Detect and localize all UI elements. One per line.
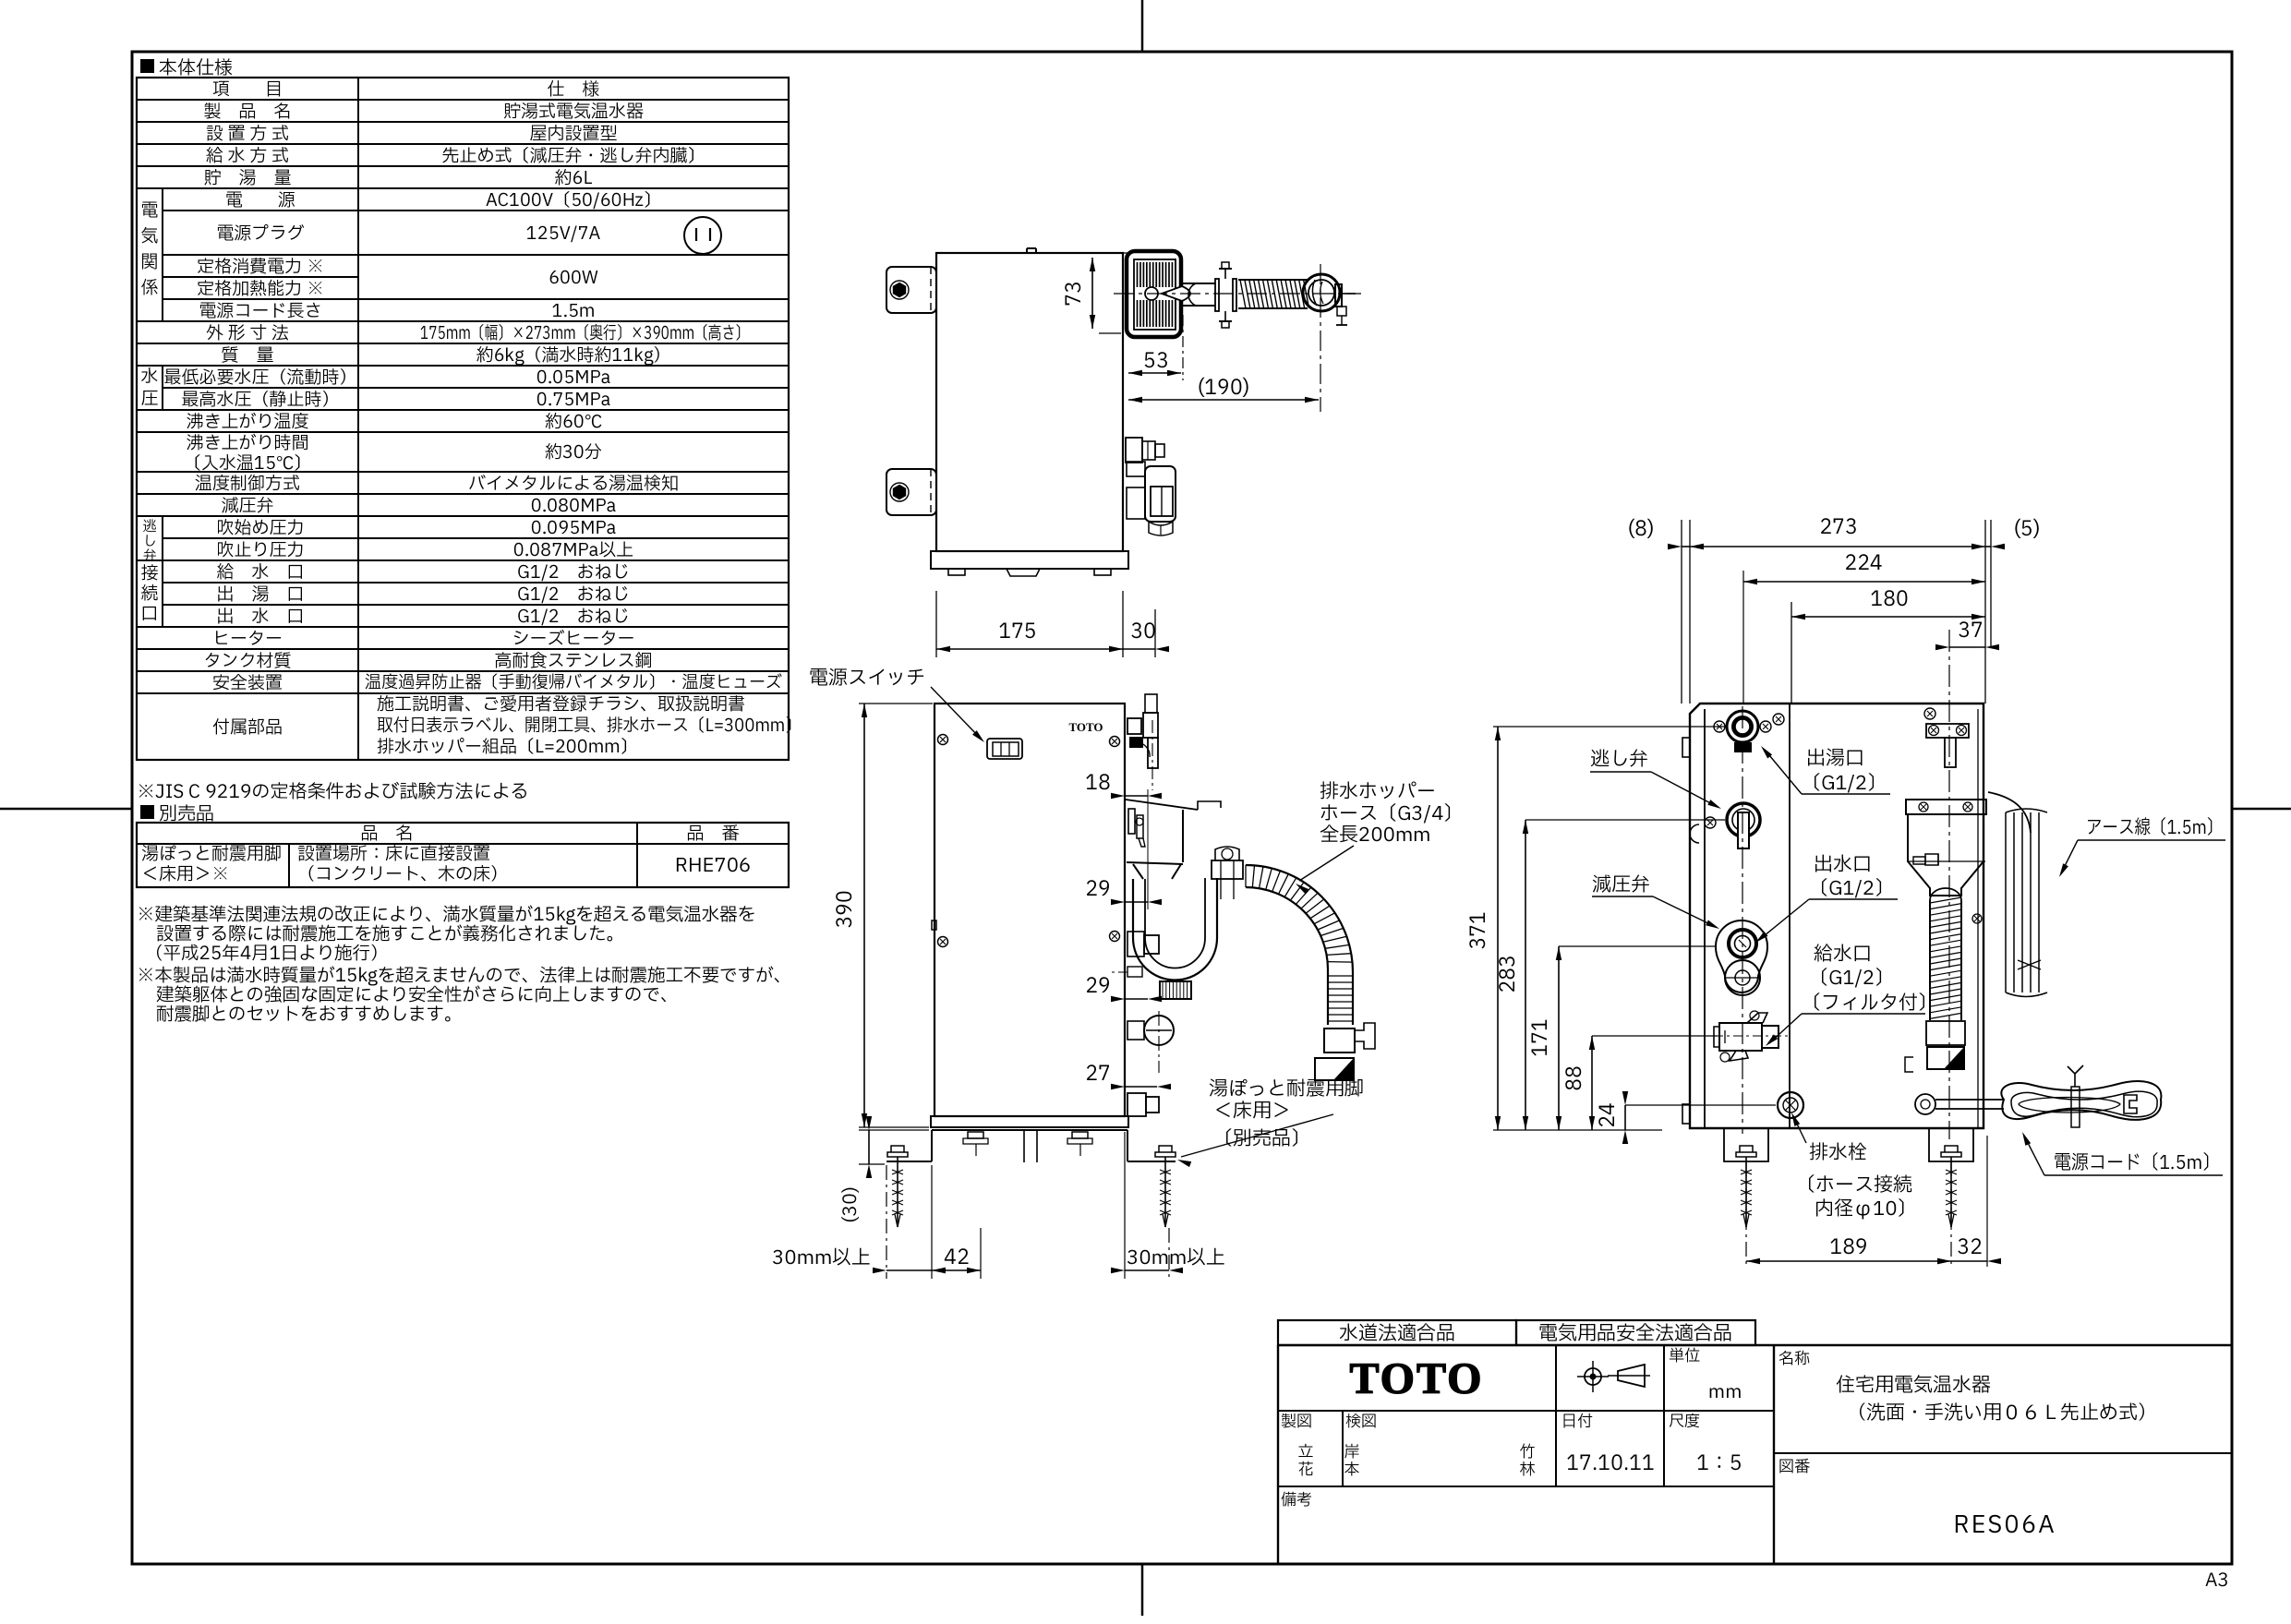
rear view: hose bottom clamp + cap bbox=[1905, 1057, 1913, 1072]
svg-text:42: 42 bbox=[944, 1243, 970, 1273]
svg-text:1：5: 1：5 bbox=[1696, 1449, 1742, 1479]
right center tick bbox=[2232, 808, 2291, 811]
svg-text:〔別売品〕: 〔別売品〕 bbox=[1213, 1125, 1310, 1154]
spec table grid bbox=[137, 78, 789, 760]
svg-text:175mm〔幅〕×273mm〔奥行〕×390mm〔高さ〕: 175mm〔幅〕×273mm〔奥行〕×390mm〔高さ〕 bbox=[420, 321, 749, 347]
dimension 390 bbox=[859, 703, 933, 704]
svg-text:30: 30 bbox=[1130, 617, 1156, 647]
rear view: left dim extension lines bbox=[1493, 726, 1725, 728]
front view: U trap outer bbox=[1133, 878, 1217, 980]
top view: hose clamp plates bbox=[1215, 279, 1219, 311]
svg-text:住宅用電気温水器: 住宅用電気温水器 bbox=[1836, 1372, 1991, 1401]
dimension (190) bbox=[1128, 399, 1319, 401]
rear view: drain plug 排水栓 bbox=[1778, 1092, 1803, 1118]
top view: main body outline bbox=[936, 253, 1123, 551]
dimension 175 / 30 (top) bbox=[935, 591, 937, 657]
top view: bracket bolt lower bbox=[890, 483, 909, 501]
svg-text:耐震脚とのセットをおすすめします。: 耐震脚とのセットをおすすめします。 bbox=[156, 1001, 463, 1029]
rear view: earth wire bbox=[1988, 792, 2031, 833]
rear view: center dashed line bbox=[1742, 706, 1743, 1134]
front view: knurled nut bbox=[1160, 981, 1191, 999]
front view: relief valve lever bbox=[1128, 809, 1135, 834]
svg-text:気: 気 bbox=[140, 224, 158, 250]
front view: power switch bbox=[987, 739, 1022, 759]
top view: base plate bbox=[931, 551, 1128, 569]
svg-text:本: 本 bbox=[1344, 1459, 1360, 1482]
top view: wall bracket upper bbox=[886, 267, 936, 313]
svg-text:アース線〔1.5m〕: アース線〔1.5m〕 bbox=[2086, 814, 2223, 843]
top view: wall bracket lower bbox=[886, 469, 936, 515]
rear view: mounted drain hose assembly top plate bbox=[1906, 800, 1986, 814]
svg-text:電源プラグ: 電源プラグ bbox=[216, 222, 304, 247]
svg-text:390: 390 bbox=[830, 890, 861, 929]
svg-text:AC100V〔50/60Hz〕: AC100V〔50/60Hz〕 bbox=[486, 188, 661, 214]
top view: bracket bolt upper bbox=[890, 281, 909, 299]
svg-text:273: 273 bbox=[1819, 512, 1858, 543]
svg-text:17.10.11: 17.10.11 bbox=[1566, 1449, 1655, 1479]
svg-text:排水栓: 排水栓 bbox=[1809, 1139, 1867, 1168]
top view: heater grille outer bbox=[1127, 251, 1181, 337]
svg-text:約60℃: 約60℃ bbox=[545, 410, 602, 436]
rear view: back plate lines bbox=[1681, 520, 1682, 704]
svg-text:（コンクリート、木の床）: （コンクリート、木の床） bbox=[297, 862, 508, 888]
svg-text:30mm以上: 30mm以上 bbox=[772, 1245, 871, 1273]
anchor screw bbox=[887, 1152, 908, 1157]
svg-text:付属部品: 付属部品 bbox=[212, 716, 283, 741]
front view: center rear feet bbox=[1023, 1130, 1025, 1162]
dimension 180 bbox=[1791, 602, 1792, 704]
rear view: feet bbox=[1724, 1128, 1768, 1161]
svg-text:224: 224 bbox=[1844, 548, 1883, 579]
svg-text:30mm以上: 30mm以上 bbox=[1127, 1245, 1225, 1273]
svg-text:29: 29 bbox=[1085, 971, 1111, 1002]
rear view: hot water outlet 出湯口 bbox=[1727, 711, 1758, 742]
svg-text:mm: mm bbox=[1708, 1378, 1742, 1406]
svg-text:180: 180 bbox=[1870, 584, 1909, 615]
svg-text:371: 371 bbox=[1464, 911, 1494, 950]
dimension 224 bbox=[1742, 571, 1744, 704]
svg-text:全長200mm: 全長200mm bbox=[1320, 822, 1430, 850]
svg-text:最高水圧（静止時）: 最高水圧（静止時） bbox=[181, 388, 339, 414]
top view: right clamp bbox=[1335, 284, 1342, 307]
svg-text:24: 24 bbox=[1593, 1102, 1623, 1128]
front view: body screws bbox=[938, 735, 948, 745]
top center tick bbox=[1141, 0, 1144, 52]
front view: bottom drain fitting bbox=[1127, 1093, 1146, 1116]
svg-text:尺度: 尺度 bbox=[1669, 1411, 1700, 1434]
svg-text:係: 係 bbox=[140, 276, 158, 302]
front view: hose end cap (dark corner) bbox=[1315, 1058, 1354, 1080]
front view: hopper neck bbox=[1133, 864, 1181, 879]
svg-text:電: 電 bbox=[140, 198, 158, 224]
front view: left edge tab bbox=[932, 920, 936, 930]
svg-text:TOTO: TOTO bbox=[1350, 1354, 1484, 1403]
rear view: left small tabs bbox=[1682, 738, 1690, 757]
svg-text:品 番: 品 番 bbox=[686, 822, 739, 848]
top view: clamp wing bolts bbox=[1224, 269, 1226, 279]
top view: center lines bbox=[1114, 293, 1361, 295]
svg-text:口: 口 bbox=[140, 602, 158, 628]
rear view: bottom dims 189 / 32 bbox=[1745, 1161, 1747, 1267]
svg-text:内径φ10〕: 内径φ10〕 bbox=[1815, 1196, 1916, 1224]
svg-text:RHE706: RHE706 bbox=[675, 852, 751, 881]
dimension 88 bbox=[1591, 1036, 1593, 1130]
dimension 53 bbox=[1182, 315, 1184, 380]
spec table title ■本体仕様 bbox=[140, 59, 154, 73]
front view: seismic feet bbox=[931, 1130, 933, 1161]
svg-text:電源スイッチ: 電源スイッチ bbox=[809, 665, 925, 693]
svg-text:TOTO: TOTO bbox=[1068, 720, 1103, 734]
rear view: power cord loop bundle bbox=[2001, 1081, 2161, 1120]
svg-text:出 水 口: 出 水 口 bbox=[216, 605, 304, 631]
front view: mid fitting bbox=[1127, 932, 1144, 956]
top view: grille pin bbox=[1162, 286, 1190, 301]
svg-text:単位: 単位 bbox=[1669, 1345, 1700, 1368]
svg-text:125V/7A: 125V/7A bbox=[526, 222, 601, 247]
svg-text:別売品: 別売品 bbox=[159, 800, 214, 828]
dimension 27 bbox=[1125, 1086, 1157, 1088]
svg-text:日付: 日付 bbox=[1561, 1411, 1593, 1434]
dimension 283 bbox=[1525, 820, 1526, 1130]
rear view: power cord outlet bbox=[1915, 1094, 1935, 1114]
svg-text:電源コード長さ: 電源コード長さ bbox=[199, 299, 321, 325]
dimension 29 (first) bbox=[1125, 901, 1148, 903]
front view: top-right outlet elbow bbox=[1127, 718, 1141, 734]
svg-text:圧: 圧 bbox=[140, 387, 158, 413]
certification box 電気用品安全法適合品 bbox=[1516, 1320, 1755, 1345]
別売品 heading bbox=[140, 805, 154, 819]
rear view: cord tie bbox=[2068, 1065, 2083, 1087]
svg-text:〔入水温15℃〕: 〔入水温15℃〕 bbox=[184, 451, 311, 477]
svg-text:73: 73 bbox=[1059, 281, 1090, 307]
top view: bottom fittings cluster bbox=[1126, 438, 1142, 463]
dimension 73 bbox=[1099, 252, 1132, 254]
rear view: vertical corrugated hose bbox=[1930, 888, 1961, 900]
rear view: main body outline bbox=[1690, 704, 1984, 1128]
rear view: screw near relief valve bbox=[1705, 817, 1716, 828]
front view: drain hopper bucket bbox=[1126, 800, 1198, 810]
bottom center tick bbox=[1141, 1564, 1144, 1616]
svg-text:製図: 製図 bbox=[1281, 1411, 1312, 1434]
rear view: screws near outlet bbox=[1714, 721, 1725, 732]
dimension 371 bbox=[1497, 727, 1499, 1130]
dimension 171 bbox=[1558, 946, 1560, 1130]
anchor screw bbox=[1736, 1152, 1756, 1157]
front view bottom dimensions bbox=[886, 1165, 887, 1279]
rear view: top right bracket bbox=[1926, 724, 1969, 738]
dimension (30) bbox=[859, 1129, 929, 1131]
title block outline bbox=[1278, 1345, 2232, 1564]
svg-text:名称: 名称 bbox=[1779, 1348, 1810, 1371]
svg-text:(8): (8) bbox=[1627, 514, 1654, 545]
rear view: pressure reducing valve 減圧弁 teardrop bbox=[1716, 920, 1767, 992]
certification box 水道法適合品 bbox=[1278, 1320, 1516, 1345]
svg-text:27: 27 bbox=[1085, 1059, 1111, 1089]
svg-text:関: 関 bbox=[140, 250, 158, 276]
front view: ball valve bbox=[1144, 1016, 1174, 1045]
svg-text:175: 175 bbox=[998, 617, 1037, 647]
rear view: water inlet 給水口 fitting bbox=[1719, 1023, 1762, 1051]
svg-text:＜床用＞: ＜床用＞ bbox=[1213, 1098, 1291, 1126]
power plug icon bbox=[684, 217, 721, 254]
svg-text:283: 283 bbox=[1493, 955, 1524, 993]
svg-text:37: 37 bbox=[1958, 616, 1984, 646]
svg-text:林: 林 bbox=[1520, 1459, 1536, 1482]
svg-text:RES06A: RES06A bbox=[1953, 1508, 2056, 1544]
rear view: cord plug bbox=[2124, 1095, 2137, 1113]
top view: small top tabs bbox=[1027, 247, 1036, 249]
rear view: screw on panel right bbox=[1972, 914, 1982, 923]
rear view: relief valve 逃し弁 bbox=[1727, 803, 1760, 836]
svg-text:600W: 600W bbox=[549, 266, 598, 292]
svg-text:53: 53 bbox=[1143, 346, 1169, 377]
svg-text:(30): (30) bbox=[837, 1186, 864, 1222]
svg-text:電源コード〔1.5m〕: 電源コード〔1.5m〕 bbox=[2054, 1149, 2220, 1178]
top view: grille middle slot bbox=[1135, 287, 1175, 300]
front view: drain hopper hose (curved corrugated) bbox=[1246, 865, 1353, 1025]
rear view: earth wire coil bbox=[2005, 812, 2007, 992]
svg-text:(5): (5) bbox=[2013, 514, 2040, 545]
svg-text:電 源: 電 源 bbox=[225, 188, 295, 214]
rear view: hose funnel body bbox=[1908, 814, 1984, 896]
dimension 24 bbox=[1624, 1105, 1626, 1130]
dimension 37 bbox=[1949, 646, 1985, 648]
svg-text:排水ホッパー組品〔L=200mm〕: 排水ホッパー組品〔L=200mm〕 bbox=[377, 735, 638, 761]
svg-text:＜床用＞※: ＜床用＞※ bbox=[141, 862, 229, 888]
svg-text:逃し弁: 逃し弁 bbox=[1590, 746, 1648, 775]
svg-text:189: 189 bbox=[1829, 1233, 1868, 1263]
top view: base feet bumps bbox=[948, 569, 965, 575]
front view: main body bbox=[934, 704, 1125, 1116]
svg-text:（洗面・手洗い用０６Ｌ先止め式）: （洗面・手洗い用０６Ｌ先止め式） bbox=[1847, 1400, 2157, 1428]
front view: U trap inner bbox=[1145, 878, 1205, 968]
front view: trap outlet clamp bbox=[1212, 860, 1243, 879]
svg-text:32: 32 bbox=[1957, 1233, 1983, 1263]
front view: small stub fitting bbox=[1127, 967, 1142, 977]
top view: corrugated hose bbox=[1238, 279, 1308, 281]
dimension 18 bbox=[1147, 789, 1149, 909]
svg-text:(190): (190) bbox=[1197, 373, 1249, 403]
top view: grille inner grid bbox=[1134, 259, 1176, 330]
third angle projection symbol bbox=[1585, 1368, 1601, 1385]
rear view: power cord to loop bbox=[1935, 1099, 2004, 1101]
front view: screw near fitting bbox=[1110, 932, 1120, 942]
svg-text:88: 88 bbox=[1560, 1065, 1590, 1091]
svg-text:検図: 検図 bbox=[1345, 1411, 1377, 1434]
svg-text:171: 171 bbox=[1525, 1018, 1556, 1057]
svg-text:安全装置: 安全装置 bbox=[212, 671, 283, 697]
front view: hose end clamp bbox=[1324, 1029, 1355, 1053]
svg-text:約30分: 約30分 bbox=[545, 440, 602, 466]
left center tick bbox=[0, 808, 132, 811]
top view: hose end ring bbox=[1303, 274, 1340, 311]
svg-text:図番: 図番 bbox=[1779, 1456, 1810, 1479]
別売品 table grid bbox=[137, 823, 789, 887]
dimension (5) bbox=[1990, 520, 1992, 646]
svg-text:29: 29 bbox=[1085, 874, 1111, 905]
dimension 29 (second) bbox=[1125, 998, 1148, 1000]
svg-text:18: 18 bbox=[1085, 768, 1111, 799]
dimension 273 bbox=[1984, 520, 1986, 704]
anchor screw bbox=[1155, 1152, 1176, 1157]
svg-text:花: 花 bbox=[1298, 1459, 1314, 1482]
front view: base plate bbox=[931, 1116, 1128, 1127]
top view: outlet pipe to hose bbox=[1181, 283, 1215, 284]
anchor screw bbox=[1941, 1152, 1961, 1157]
svg-text:A3: A3 bbox=[2205, 1567, 2229, 1594]
svg-text:備考: 備考 bbox=[1281, 1489, 1312, 1512]
